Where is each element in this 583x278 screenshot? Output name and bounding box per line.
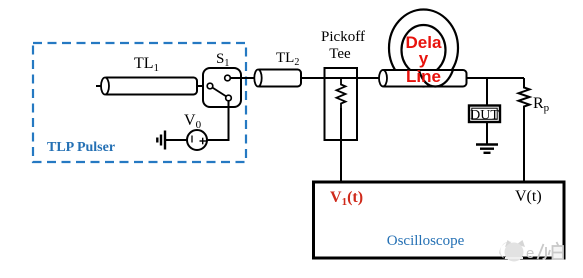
ground (V0, rotated) [157,131,165,150]
wire (S1 output to TL2) [231,77,258,79]
wire (pickoff tee down to oscilloscope V1 input) [340,108,342,181]
label V0 [184,112,202,131]
svg-text:Tee: Tee [329,46,351,62]
DUT box [469,106,500,124]
label Delay Line (red) [406,33,442,86]
svg-text:y: y [419,49,429,68]
watermark logo + text [499,240,563,262]
TLP Pulser enclosure (dashed box) [33,43,246,162]
wire (TL1 to S1) [197,85,207,87]
label TL1 [134,55,159,74]
svg-text:DUT: DUT [470,108,499,123]
node V(t) label [515,188,542,205]
svg-text:Pickoff: Pickoff [321,29,365,45]
resistor Rp [519,78,530,110]
switch S1 [203,68,241,107]
oscilloscope box [314,182,565,258]
wire (TL2 through pickoff tee to delay line) [301,77,383,79]
svg-text:V1(t): V1(t) [330,189,363,208]
pickoff tee box [325,68,358,140]
label Pickoff Tee [321,29,365,62]
svg-text:Line: Line [406,67,441,86]
wire (node down to DUT) [486,78,488,105]
transmission line TL1 [101,78,197,95]
node V1(t) label (red) [330,189,363,208]
wire (Rp down to oscilloscope V input) [523,110,525,181]
transmission line TL2 [254,70,301,87]
label S1 [216,51,229,69]
delay line DL (coil + cable) [379,10,467,87]
label TL2 [276,50,299,68]
label TLP Pulser [47,140,115,155]
wire (stub left of TL1) [96,85,102,87]
svg-text:e: e [526,245,534,262]
wire (DUT to ground) [486,122,488,144]
wire (ground to V0) [166,139,188,141]
label Oscilloscope (blue) [387,233,465,249]
resistor (pickoff tee) [337,78,346,108]
wire (delay line to DUT / Rp node) [466,77,524,79]
voltage source V0 [187,130,207,150]
ground (DUT) [476,145,498,153]
svg-text:TLP Pulser: TLP Pulser [47,140,115,155]
wire (S1 bottom pole down and left to V0) [207,101,229,140]
label Rp [533,95,550,114]
svg-text:Oscilloscope: Oscilloscope [387,233,465,249]
svg-text:V(t): V(t) [515,188,542,205]
